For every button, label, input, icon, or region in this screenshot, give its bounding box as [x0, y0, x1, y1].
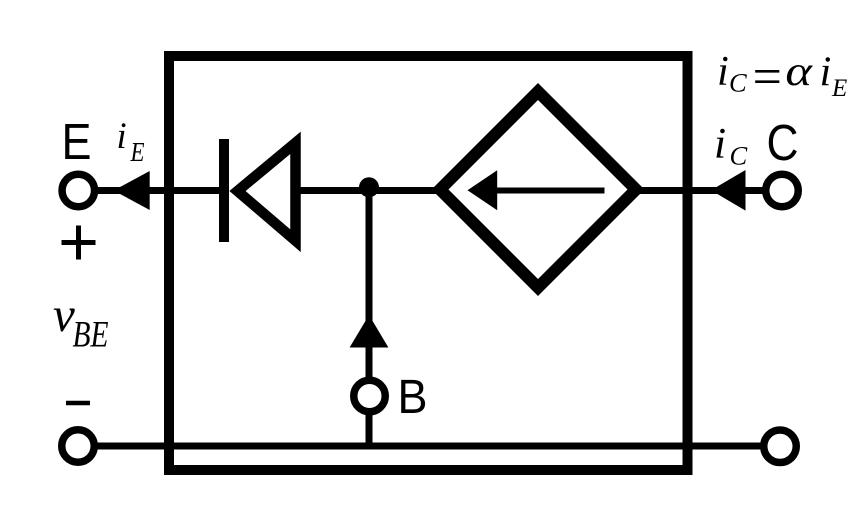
- arrow tail inside current source: [493, 188, 605, 194]
- terminal C circle: [766, 174, 799, 207]
- wire (node to diamond left vertex): [366, 187, 446, 194]
- wire (base: node down to B terminal): [366, 191, 373, 381]
- wire (diode to node): [293, 187, 372, 194]
- wire (emitter row, E terminal to diode): [92, 187, 224, 194]
- terminal circle bottom-right: [764, 430, 797, 463]
- plus sign (v_BE polarity): [62, 240, 96, 245]
- wire (bottom rail): [95, 443, 762, 450]
- svg-text:C: C: [767, 114, 799, 171]
- svg-text:=: =: [749, 49, 784, 106]
- svg-text:i: i: [717, 48, 729, 95]
- terminal circle bottom-left: [62, 430, 95, 463]
- node (base junction dot): [359, 177, 379, 197]
- controlled current source U1 (diamond): [440, 92, 636, 288]
- svg-text:i: i: [117, 115, 127, 156]
- diode D cathode bar: [219, 139, 229, 242]
- svg-text:i: i: [820, 49, 832, 96]
- arrowhead i_B (pointing up): [350, 315, 389, 348]
- svg-text:C: C: [730, 141, 748, 171]
- svg-text:B: B: [398, 371, 428, 424]
- svg-text:C: C: [729, 68, 747, 98]
- svg-text:E: E: [62, 113, 92, 170]
- wire (B circle down to bottom rail): [366, 411, 373, 449]
- wire (diamond right vertex to C terminal): [630, 187, 770, 194]
- terminal E circle: [62, 174, 95, 207]
- arrowhead i_E (pointing left toward E): [114, 171, 150, 210]
- svg-text:α: α: [785, 48, 814, 95]
- minus sign (v_BE polarity): [66, 401, 90, 406]
- svg-text:i: i: [714, 120, 726, 168]
- box (transistor T-model boundary): [169, 56, 688, 470]
- terminal B circle: [354, 380, 386, 412]
- arrowhead i_C (pointing left toward box): [711, 170, 746, 211]
- diode D triangle: [238, 143, 296, 241]
- svg-text:E: E: [130, 137, 145, 167]
- arrowhead inside current source (pointing left): [468, 170, 498, 210]
- svg-text:E: E: [831, 75, 847, 102]
- svg-text:BE: BE: [73, 314, 109, 355]
